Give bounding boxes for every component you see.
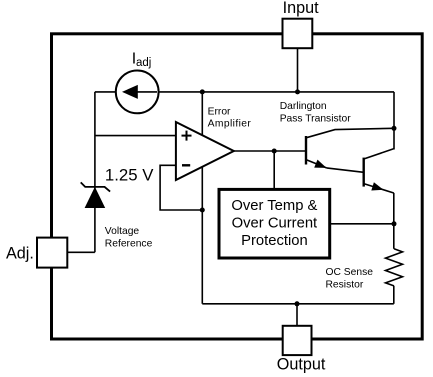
wire: top rail from Iadj source to right rail corner	[159, 91, 394, 93]
node: output tap junction	[295, 301, 300, 306]
wire: error amplifier output to Q1 base	[234, 150, 306, 152]
zener diode voltage reference	[85, 188, 104, 208]
node: error amp supply junction	[200, 89, 205, 94]
svg-text:OC Sense: OC Sense	[326, 267, 374, 278]
wire: error amplifier supply tap	[201, 92, 203, 135]
wire: top rail from left corner to Iadj source	[95, 91, 116, 93]
wire: Input pin to top rail	[297, 48, 299, 92]
svg-text:Reference: Reference	[105, 238, 153, 249]
svg-text:Darlington: Darlington	[280, 101, 327, 112]
svg-text:Pass Transistor: Pass Transistor	[280, 114, 352, 125]
transistor Q1 (darlington driver)	[305, 136, 307, 165]
IC boundary box	[52, 34, 423, 339]
svg-text:Output: Output	[277, 356, 326, 374]
resistor OC sense	[386, 249, 403, 286]
svg-text:Over Current: Over Current	[232, 216, 318, 232]
svg-text:Resistor: Resistor	[326, 280, 364, 291]
svg-text:Adj.: Adj.	[6, 244, 34, 262]
svg-text:Error: Error	[208, 106, 231, 117]
wire: sense resistor to output node	[393, 286, 395, 304]
svg-text:Amplifier: Amplifier	[208, 119, 252, 130]
Output pin pad	[283, 326, 312, 355]
wire: output pin tap	[296, 304, 298, 326]
current source Iadj	[116, 71, 159, 114]
wire: non-inverting input	[95, 135, 176, 137]
svg-text:Over Temp &: Over Temp &	[231, 198, 317, 214]
op-amp plus symbol	[182, 135, 192, 137]
transistor Q2 (darlington output)	[363, 158, 365, 187]
svg-text:1.25 V: 1.25 V	[105, 166, 154, 185]
wire: protection box top tap	[273, 151, 275, 189]
svg-text:Input: Input	[283, 0, 320, 17]
wire: Adj pin to reference	[67, 251, 95, 253]
Input pin pad	[283, 19, 313, 49]
over temp and over current protection box	[219, 189, 330, 258]
wire: protection box to sense rail	[330, 223, 394, 225]
op-amp minus symbol	[182, 164, 190, 166]
wire: feedback vertical from amplifier edge to output node	[201, 167, 203, 304]
wire: left vertical rail (Iadj to Adj pin, through reference)	[94, 92, 96, 252]
wire: output node horizontal	[202, 303, 393, 305]
svg-text:adj: adj	[136, 57, 151, 69]
wire: Q2 emitter rail to sense resistor	[393, 193, 395, 249]
node: amplifier output junction	[272, 149, 277, 154]
wire: inverting input feedback loop	[160, 165, 202, 210]
Adj pin pad	[37, 238, 67, 268]
svg-text:Protection: Protection	[241, 233, 308, 249]
node: collector rail junction	[392, 126, 397, 131]
svg-text:Voltage: Voltage	[105, 226, 140, 237]
wire: right vertical collector rail	[393, 92, 395, 150]
op-amp U1 error amplifier	[176, 122, 234, 180]
node: input tap junction	[295, 89, 300, 94]
node: sense rail junction	[392, 221, 397, 226]
node: feedback junction	[200, 208, 205, 213]
